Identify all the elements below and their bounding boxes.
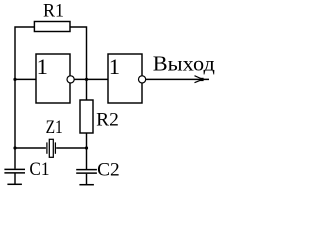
crystal Z1 left plate [46, 142, 48, 153]
node B: left junction at crystal row [13, 146, 16, 149]
wire: R1 left lead and left vertical bus down to C1 [15, 27, 34, 169]
capacitor C1 top plate [4, 168, 25, 170]
ground under C2 [79, 184, 94, 186]
crystal Z1 body [49, 139, 53, 157]
wire: R2 top lead [86, 79, 88, 100]
output arrow square dot [200, 78, 203, 81]
capacitor C2 bottom plate [76, 172, 97, 174]
capacitor C2 top plate [76, 169, 97, 171]
svg-text:Выход: Выход [153, 52, 215, 76]
wire: C2 top lead [86, 148, 88, 170]
node C: right junction at crystal row [85, 146, 88, 149]
wire: C1 bottom stub [14, 174, 16, 185]
wire: crystal row right segment [56, 147, 86, 149]
wire: inverter 1 input [15, 78, 36, 80]
resistor R2 [80, 100, 93, 133]
svg-text:R2: R2 [96, 109, 119, 130]
inversion circle of DD1.1 [67, 76, 74, 83]
svg-text:1: 1 [109, 54, 120, 79]
capacitor C1 bottom plate [4, 172, 25, 174]
resistor R1 [34, 22, 70, 32]
ground under C1 [7, 183, 22, 185]
output arrow head [195, 76, 201, 83]
crystal Z1 right plate [54, 142, 56, 153]
node D: junction at DD1.1 input [13, 78, 16, 81]
svg-text:C2: C2 [97, 159, 120, 180]
wire: crystal row left segment [15, 147, 46, 149]
op-amp U2: logic inverter DD1.2 box [108, 54, 142, 103]
inversion circle of DD1.2 [139, 76, 146, 83]
svg-text:C1: C1 [29, 159, 49, 180]
svg-text:R1: R1 [43, 1, 64, 22]
wire: R2 bottom lead [86, 133, 88, 148]
wire: C2 bottom stub [86, 174, 88, 185]
node A: junction output of DD1.1 [85, 78, 88, 81]
wire: R1 right lead down to inverter 1 output node [70, 27, 87, 79]
wire: inverter 1 output to inverter 2 input [70, 78, 108, 80]
wire: output wire to the right [142, 78, 209, 80]
svg-text:1: 1 [37, 54, 48, 79]
svg-text:Z1: Z1 [46, 117, 63, 138]
op-amp U1: logic inverter DD1.1 box [36, 54, 70, 103]
